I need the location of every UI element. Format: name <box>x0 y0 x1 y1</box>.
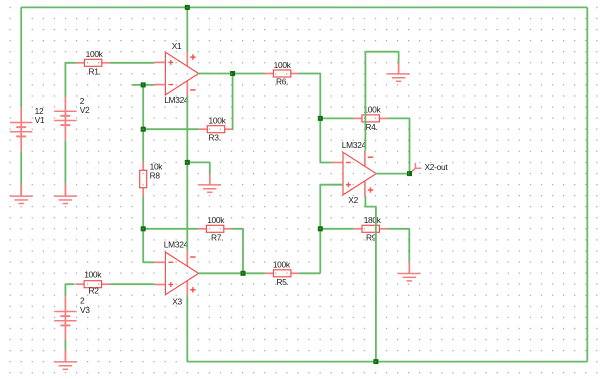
ground below R9 (X2 + network) <box>398 261 420 281</box>
wire V2 branch lower <box>64 141 66 184</box>
wire X1 - input stub <box>132 84 154 86</box>
wire R3 right up to X1 output <box>232 74 235 130</box>
wire X2 V+ pin down to bottom rail (crosses R9) <box>365 196 376 362</box>
resistor R5. value 100k <box>265 260 300 287</box>
battery V3 value 2 <box>54 296 90 341</box>
wire bottom rail <box>187 361 587 363</box>
wire V1 branch upper <box>20 7 22 107</box>
wire X2 + input <box>320 185 343 274</box>
output port X2-out <box>412 163 422 172</box>
junction R3 left tap <box>141 127 146 132</box>
resistor R2 value 100k <box>75 269 110 295</box>
wire X2 V- supply to top ground <box>365 52 398 63</box>
resistor R1. value 100k <box>76 49 111 76</box>
junction X3 output node <box>241 271 246 276</box>
V2 ground stub red <box>64 184 66 196</box>
junction R4 left / R6 node <box>318 116 323 121</box>
junction bottom rail / X2 V+ branch <box>373 359 378 364</box>
junction R7 left tap <box>141 226 146 231</box>
junction X2 output node <box>407 171 412 176</box>
resistor R4. value 100k <box>353 105 388 132</box>
junction R9 left / R5 node <box>318 226 323 231</box>
wire X3 output <box>199 272 265 274</box>
wire V3 branch lower <box>64 340 66 350</box>
wire R4 left joint <box>320 117 353 119</box>
wire R2 to X3 + input <box>110 283 154 285</box>
V1 ground stub red <box>20 184 22 196</box>
junction X1 output node <box>230 71 235 76</box>
wire R9 row left <box>320 228 353 230</box>
wire R3 row left <box>143 128 198 130</box>
battery V1 value 12 <box>10 106 45 152</box>
resistor R6. value 100k <box>265 60 300 87</box>
junction top rail / main vertical <box>185 5 190 10</box>
wire R6 right then down to R4 node <box>300 74 321 119</box>
wire X2 V- vertical (crosses R4) <box>364 52 366 151</box>
resistor R3. value 100k <box>199 116 234 143</box>
junction X1 - input node <box>141 82 146 87</box>
V3 ground stub red <box>64 350 66 362</box>
wire R1 to X1 + input <box>111 62 155 64</box>
wire R7 row left <box>143 228 198 230</box>
wire R5 right to X2 + branch <box>300 272 321 274</box>
wire R4 right down to X2 output <box>388 118 409 173</box>
wire V3 to R2 <box>65 284 74 296</box>
op-amp X3 LM324 <box>154 250 198 296</box>
wire right rail <box>586 7 588 361</box>
wire top supply rail <box>21 6 587 8</box>
wire V2 to R1 <box>65 63 75 97</box>
ground of V1 <box>10 184 32 204</box>
battery V2 value 2 <box>54 96 90 140</box>
wire main vertical rail lower (X3 to bottom rail) <box>186 296 188 361</box>
junction ground tap node <box>185 160 190 165</box>
op-amp X2 LM324 <box>332 151 376 197</box>
wire R9 right down to ground <box>388 229 409 261</box>
wire X2 output <box>376 173 409 175</box>
resistor R9 value 180k <box>353 215 388 242</box>
wire R8 node vertical upper <box>142 85 144 162</box>
ground of V3 <box>54 350 76 370</box>
ground near R3 (X1 feedback node) <box>199 174 221 193</box>
ground of V2 <box>54 184 76 204</box>
wire R8 node vertical lower <box>143 196 154 262</box>
resistor R8 value 10k <box>140 162 164 197</box>
wire main vertical rail upper (to X1 V+) <box>186 7 188 51</box>
resistor R7. value 100k <box>198 215 233 242</box>
wire ground tap on main rail <box>187 162 210 173</box>
wire R4 node down to X2 - input <box>320 118 332 162</box>
wire R7 right down to X3 output <box>233 229 244 273</box>
op-amp X1 LM324 <box>154 51 198 97</box>
wire main vertical rail middle (X1 to X3) <box>186 97 188 251</box>
wire X1 output <box>199 73 265 75</box>
ground top right (X2 V- supply) <box>387 63 409 82</box>
wire V1 branch lower <box>20 152 22 184</box>
